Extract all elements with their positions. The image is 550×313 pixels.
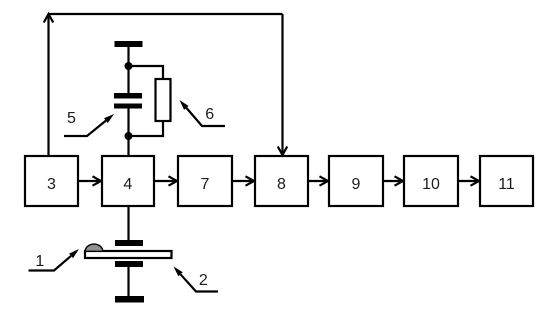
node A junction dot [125,62,133,70]
block 11 [480,156,533,206]
wire feedback up from block 3 with arrowhead [44,14,53,156]
svg-text:6: 6 [205,106,214,123]
arrow feedback down into block 8 [278,14,287,155]
svg-text:10: 10 [422,176,440,193]
label 2 with leader arrow to plate [174,267,219,292]
wire node A to capacitor [127,66,129,93]
ground terminal bar [115,296,144,303]
capacitor C5 plate lower [114,104,142,109]
svg-text:2: 2 [199,272,208,289]
svg-text:11: 11 [498,176,515,193]
svg-text:9: 9 [352,176,361,193]
dome 1 (sample drop, gray) [85,244,103,251]
wire node A to resistor top [129,66,164,79]
block 8 [255,156,308,206]
arrow 8 to 9 [308,176,328,185]
svg-text:4: 4 [123,176,132,193]
sensor electrode bar lower [115,261,143,267]
arrow 10 to 11 [458,176,479,185]
sensor electrode bar upper [115,240,143,246]
plate 2 (sample stage) [85,251,172,258]
terminal bar top [115,41,143,47]
svg-text:1: 1 [35,253,44,270]
label 5 with leader arrow to capacitor [64,110,114,136]
svg-text:5: 5 [67,110,76,127]
block 9 [329,156,383,206]
block 10 [404,156,458,206]
resistor R6 [156,79,171,121]
wire block 4 to sensor bar [127,206,129,240]
wire node B to block 4 [127,136,129,156]
label 1 with leader arrow to dome [29,249,80,271]
node B junction dot [125,132,133,140]
wire resistor bottom to node B [129,121,164,136]
block 4 [102,156,154,206]
capacitor C5 plate upper [114,93,142,99]
wire lower bar to ground [127,267,129,296]
arrow 9 to 10 [383,176,403,185]
svg-text:7: 7 [201,176,210,193]
wire capacitor to node B [127,109,129,137]
arrow 7 to 8 [232,176,254,185]
svg-text:8: 8 [277,176,286,193]
block 7 [178,156,232,206]
wire terminal to node A [127,47,129,66]
arrow 4 to 7 [154,176,177,185]
wire feedback top horizontal [49,13,283,15]
svg-text:3: 3 [47,176,56,193]
label 6 with leader arrow to resistor [180,100,226,126]
arrow 3 to 4 [78,176,101,185]
block 3 [25,156,78,206]
